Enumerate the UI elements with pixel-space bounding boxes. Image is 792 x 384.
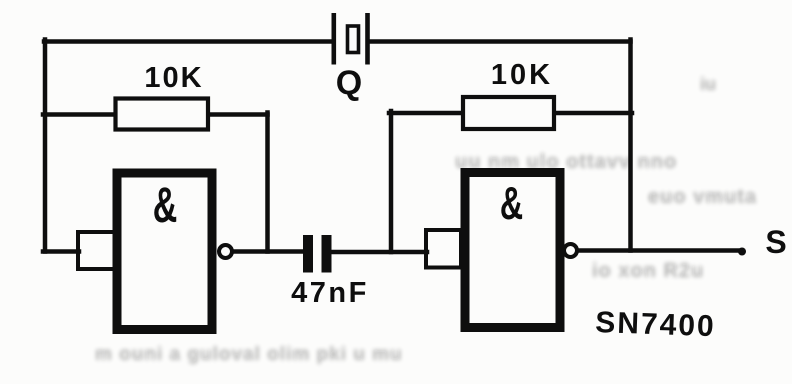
- NAND gate U1A ampersand: [153, 178, 178, 234]
- crystal Q body: [348, 26, 359, 53]
- wire R1 to gate1 output vertical: [265, 113, 270, 252]
- svg-text:euo vmuta: euo vmuta: [648, 186, 757, 208]
- wire R2 right lead: [555, 111, 632, 116]
- svg-text:S: S: [765, 224, 786, 260]
- wire gate1 output to capacitor: [232, 249, 305, 254]
- svg-text:Q: Q: [336, 64, 362, 102]
- wire R2 left lead: [389, 111, 462, 116]
- svg-text:&: &: [500, 178, 523, 229]
- resistor R2 body: [463, 97, 554, 129]
- NAND gate U1B body: [465, 173, 560, 328]
- wire gate1 input: [43, 249, 79, 254]
- svg-text:m ouni a guloval olim pki u: m ouni a guloval olim pki u mu: [95, 344, 403, 365]
- wire R1 right lead: [209, 112, 268, 117]
- wire R2 to node vertical: [389, 111, 394, 252]
- wire gate2 output to S: [578, 248, 741, 253]
- resistor R1 body: [116, 99, 209, 130]
- wire right vertical: [628, 40, 633, 251]
- svg-text:io xon R2u: io xon R2u: [592, 260, 704, 282]
- wire top-right horizontal: [368, 39, 631, 44]
- svg-text:iu: iu: [700, 74, 716, 94]
- node S terminal dot: [738, 248, 746, 256]
- NAND gate U1B input box: [426, 230, 461, 268]
- svg-text:10K: 10K: [144, 62, 203, 94]
- crystal Q right plate: [365, 13, 370, 65]
- capacitor C1 right plate: [322, 235, 332, 273]
- wire capacitor to gate2 input: [330, 250, 427, 255]
- capacitor C1 left plate: [303, 235, 313, 273]
- NAND gate U1B ampersand: [500, 178, 523, 229]
- crystal Q left plate: [332, 13, 337, 65]
- wire left vertical: [43, 40, 48, 252]
- NAND gate U1A output bubble: [219, 245, 232, 258]
- wire R1 left lead: [43, 112, 114, 117]
- svg-text:10K: 10K: [491, 59, 553, 91]
- NAND gate U1A input box: [78, 232, 116, 269]
- NAND gate U1B output bubble: [564, 244, 577, 257]
- svg-text:47nF: 47nF: [291, 277, 369, 309]
- wire top-left horizontal: [44, 39, 333, 44]
- NAND gate U1A body: [117, 173, 212, 330]
- svg-text:&: &: [153, 178, 178, 234]
- svg-text:SN7400: SN7400: [595, 306, 717, 343]
